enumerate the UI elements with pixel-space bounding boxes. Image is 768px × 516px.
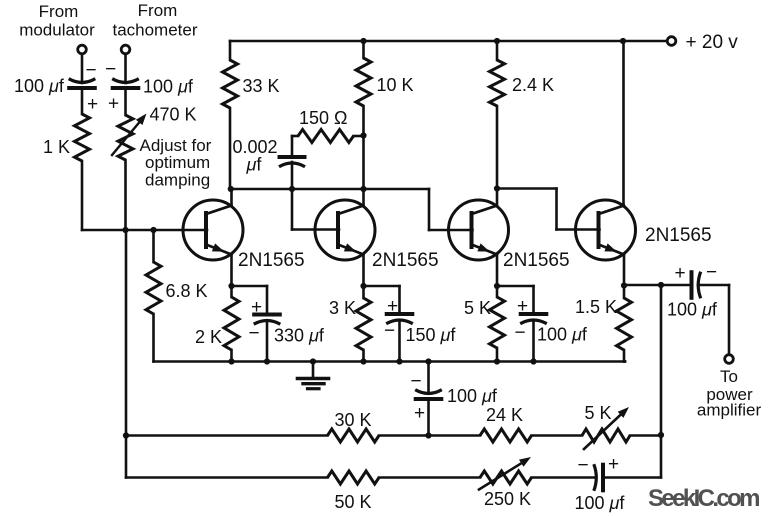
svg-text:−: − [85,60,96,81]
wire collector node rail [230,188,429,191]
wire R2 down to base rail [124,160,127,230]
wire node to C4 [232,286,268,315]
text polarity C6 minus [514,323,525,344]
resistor R15 50 K [328,471,380,484]
text label 150 ohm [299,108,348,128]
wire C1 to R1 [81,88,84,114]
text label 2.4 K [512,75,554,95]
svg-text:−: − [248,323,259,344]
node junction Q2 emitter/R9/C5 [360,283,366,289]
text polarity C8 minus [410,371,421,392]
svg-text:+: + [414,403,425,424]
text polarity marks C1/C2 minus minus [85,59,116,81]
capacitor C4 330 uf [254,315,281,325]
wire C5 to ground rail [398,322,401,362]
svg-text:100 μf: 100 μf [447,386,498,406]
text polarity C5 minus [384,321,395,342]
text label 100 uf (C8) [447,386,498,406]
text label From tachometer [112,1,197,40]
text polarity C4 minus [248,323,259,344]
resistor R4 10 K [356,41,371,188]
text polarity C9 plus [608,454,619,475]
wire arrow of R16 [479,457,531,490]
text label 2N1565 (Q3) [503,250,570,271]
svg-text:100 μf: 100 μf [667,300,718,320]
wire C3 node down to Q2 base [292,189,339,230]
svg-text:10 K: 10 K [377,75,414,95]
wire R6 right lead [354,135,364,138]
resistor R10 5 K [490,286,505,362]
text watermark SeekIC.com [648,485,761,512]
svg-text:150 Ω: 150 Ω [299,108,348,128]
resistor R13 24 K [480,429,532,442]
svg-text:100 μf: 100 μf [537,325,588,345]
wire C2 to R2 [124,88,127,115]
resistor R16 250 K variable [480,471,532,484]
transistor Q4 2N1565 [576,200,636,260]
text label 2N1565 (Q2) [372,250,439,271]
wire emitter ground rail [154,360,626,363]
text label 100 uf (C6) [537,325,588,345]
svg-text:5 K: 5 K [464,298,491,318]
text label 2N1565 (Q4) [645,225,712,246]
text label 2N1565 (Q1) [238,250,305,271]
node junction R10 bottom [494,358,500,364]
svg-text:+ 20 v: + 20 v [686,32,739,53]
wire C6 to ground rail [532,322,535,362]
resistor R11 1.5 K [617,286,632,362]
node junction R6/R4 line [360,132,366,138]
svg-text:33 K: 33 K [243,76,280,96]
text label 0.002 uf [233,137,278,175]
wire rail1 segment a [126,434,328,437]
resistor R14 5 K variable [582,429,630,442]
wire output node rail [624,284,692,287]
resistor R8 2 K [224,286,239,362]
text label 30 K [335,410,372,430]
text label 100 uf (C7) [667,300,718,320]
resistor R3 33 K [223,41,238,188]
capacitor C5 150 uf [386,314,413,324]
svg-text:2.4 K: 2.4 K [512,75,554,95]
wire Q2 emitter down [362,254,365,286]
svg-text:−: − [514,323,525,344]
text label 5 K (emitter) [464,298,491,318]
ground symbol [298,362,329,389]
svg-text:+: + [251,297,262,318]
node junction R8 bottom [228,358,234,364]
text label 3 K [329,298,356,318]
text polarity C6 plus [517,296,528,317]
svg-text:SeekIC.com: SeekIC.com [648,485,761,512]
wire R1 to base rail corner [81,161,84,230]
svg-text:−: − [410,371,421,392]
wire Q1 collector to node rail [230,189,233,206]
wire jog to Q3 base [429,189,473,230]
text label 150 uf [406,325,457,345]
svg-text:−: − [706,262,717,283]
wire C3 lower lead [291,162,294,189]
resistor R5 2.4 K [490,41,505,189]
svg-text:1.5 K: 1.5 K [575,297,617,317]
svg-text:2N1565: 2N1565 [645,225,712,246]
node junction ground stem [310,358,316,364]
wire Q4 collector [622,41,625,206]
wire node to C5 [364,286,400,314]
svg-text:−: − [577,455,588,476]
svg-text:24 K: 24 K [486,405,523,425]
wire C8 lower lead [427,399,430,436]
text polarity C4 plus [251,297,262,318]
text label Adjust for optimum damping [140,136,212,190]
node junction rail1/output column [658,432,664,438]
node junction C6 bottom [530,358,536,364]
wire rail2 segment c [532,476,596,479]
svg-text:+: + [674,263,685,284]
svg-text:From: From [138,1,178,20]
text label 100 uf (C9) [575,493,626,513]
node junction Q3 emitter/R10/C6 [494,283,500,289]
text label 100 uf (C2) [143,77,194,97]
node junction Q4 collector wire on bus [620,38,626,44]
svg-text:−: − [384,321,395,342]
text polarity C5 plus [387,296,398,317]
wire arrow of R14 [584,407,629,449]
wire R11 bottom corner [624,360,625,363]
transistor Q1 2N1565 [183,200,243,260]
node junction left column/rail1 [123,432,129,438]
text label 1 K [43,137,70,157]
svg-text:50 K: 50 K [335,492,372,512]
capacitor C6 100 uf [520,314,547,324]
svg-text:100 μf: 100 μf [143,77,194,97]
svg-text:2N1565: 2N1565 [503,250,570,271]
svg-text:470 K: 470 K [150,105,197,125]
text polarity C7 plus [674,263,685,284]
capacitor C2 100 uf (input, from tachometer) [112,79,139,88]
wire arrow of R2 [112,114,147,156]
svg-text:To: To [720,367,738,386]
svg-text:damping: damping [145,171,210,190]
capacitor C7 100 uf (output coupling) [692,272,701,299]
svg-text:+: + [608,454,619,475]
resistor R6 150 ohm [298,130,354,143]
wire R2 line down to feedback rails [125,230,128,478]
node junction R4/Q2 collector [360,186,366,192]
resistor R7 6.8 K [146,230,161,362]
text label 2 K [195,327,222,347]
wire rail2 segment d [603,476,661,479]
svg-text:2 K: 2 K [195,327,222,347]
svg-text:−: − [105,59,116,80]
capacitor C9 100 uf (feedback coupling) [594,464,603,491]
wire C8 upper lead [427,362,430,393]
svg-text:+: + [108,94,119,115]
svg-text:250 K: 250 K [484,489,531,509]
wire +20V top bus [230,40,667,43]
text polarity C9 minus [577,455,588,476]
wire Q3 collector up [496,189,499,206]
resistor R1 1 K [75,114,90,161]
text label 330 uf [274,326,325,346]
node output terminal (to power amplifier) [725,355,734,364]
wire rail1 segment b [379,434,480,437]
svg-text:optimum: optimum [145,153,210,172]
wire output column down [660,285,663,478]
capacitor C1 100 uf (input, from modulator) [69,79,96,88]
text polarity marks C1/C2 plus plus [87,94,119,116]
node junction Q1 emitter/R8/C4 [228,283,234,289]
svg-text:150 μf: 150 μf [406,325,457,345]
node input terminal J1 (from modulator) [78,45,87,54]
node junction C3 top on node rail [289,186,295,192]
wire base rail (R1/R2/R7 to Q1 base) [82,229,207,232]
svg-text:2N1565: 2N1565 [238,250,305,271]
wire Q2 collector to node rail [362,189,365,206]
wire C3 top lead / R6 left lead [292,136,298,157]
svg-text:μf: μf [246,155,263,175]
wire Q3 emitter down [496,254,499,286]
wire C7 to output terminal [698,285,729,355]
svg-text:5 K: 5 K [585,403,612,423]
text label 24 K [486,405,523,425]
node junction Q4 emitter/R11/output [621,282,627,288]
svg-text:100 μf: 100 μf [14,76,65,96]
text label 10 K [377,75,414,95]
node junction R3/Q1 collector [228,186,234,192]
svg-text:1 K: 1 K [43,137,70,157]
wire Q1 emitter down [230,254,233,286]
wire rail1 segment c [532,434,583,437]
wire rail2 segment b [379,476,480,479]
node junction C4 bottom [264,358,270,364]
node junction R5 top on bus [494,38,500,44]
wire rail2 corner left [126,476,328,479]
capacitor C8 100 uf (rail to feedback) [415,390,442,399]
node junction output/feedback [658,282,664,288]
wire J2 to C2 [124,54,127,83]
text label 250 K [484,489,531,509]
svg-text:30 K: 30 K [335,410,372,430]
text label 6.8 K [166,281,208,301]
wire C4 to ground rail [266,322,269,362]
text label From modulator [19,2,95,40]
node junction R4 top on bus [360,38,366,44]
svg-text:modulator: modulator [19,21,95,40]
svg-text:+: + [517,296,528,317]
node junction C8 top [425,358,431,364]
node junction R7 top [150,227,156,233]
text label 100 uf (C1) [14,76,65,96]
resistor R9 3 K [356,286,371,362]
svg-text:100 μf: 100 μf [575,493,626,513]
node junction R2/base-rail [122,227,128,233]
node junction R5/Q3 collector [494,185,500,191]
transistor Q2 2N1565 [315,200,375,260]
node input terminal J2 (from tachometer) [121,45,130,54]
node junction R9 bottom [360,358,366,364]
node junction C5 bottom [396,358,402,364]
text label 1.5 K [575,297,617,317]
wire J1 to C1 [81,54,84,83]
text label To power amplifier [697,367,762,420]
svg-text:6.8 K: 6.8 K [166,281,208,301]
text label 470 K [150,105,197,125]
svg-text:3 K: 3 K [329,298,356,318]
text label 5 K (R14) [585,403,612,423]
text polarity C8 plus [414,403,425,424]
capacitor C3 0.002 uf [279,157,305,167]
wire node to C6 [497,286,534,314]
svg-text:From: From [39,2,79,21]
svg-text:2N1565: 2N1565 [372,250,439,271]
svg-text:+: + [387,296,398,317]
svg-text:+: + [87,94,98,115]
resistor R2 470 K variable [118,115,133,160]
transistor Q3 2N1565 [449,200,509,260]
wire rail1 segment d [630,434,661,437]
text polarity C7 minus [706,262,717,283]
text label 50 K [335,492,372,512]
text label +20 v [686,32,739,53]
node junction C8/rail1 [425,432,431,438]
resistor R12 30 K [328,429,380,442]
wire R5 node to Q4 base [497,189,600,230]
svg-text:tachometer: tachometer [112,21,197,40]
wire Q4 emitter down [623,254,626,286]
svg-text:amplifier: amplifier [697,401,762,420]
node +20V terminal [667,37,676,46]
text label 33 K [243,76,280,96]
svg-text:330 μf: 330 μf [274,326,325,346]
